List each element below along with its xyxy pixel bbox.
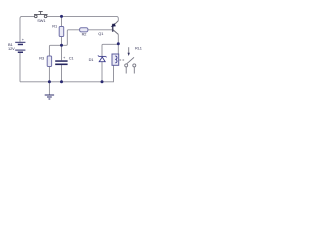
svg-text:R2: R2 <box>82 32 87 37</box>
svg-text:Q1: Q1 <box>98 31 103 36</box>
svg-text:R3: R3 <box>39 55 44 60</box>
svg-text:12V: 12V <box>8 46 15 51</box>
svg-text:RL1: RL1 <box>135 46 142 51</box>
svg-text:R1: R1 <box>52 23 57 28</box>
svg-text:C1: C1 <box>69 55 74 60</box>
svg-text:D1: D1 <box>89 57 94 62</box>
svg-text:SW1: SW1 <box>37 18 45 23</box>
